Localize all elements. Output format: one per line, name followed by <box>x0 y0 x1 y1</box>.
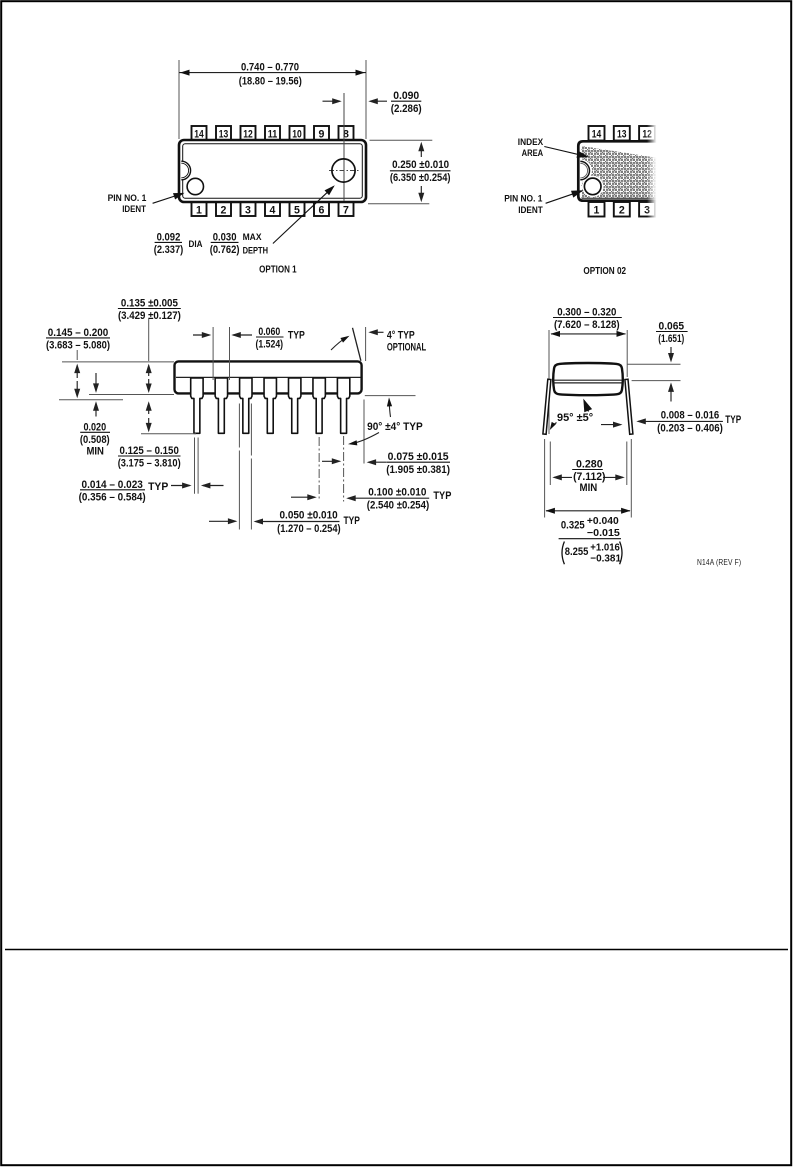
fig4 dim 0.065 upper line <box>627 363 681 365</box>
svg-text:2: 2 <box>221 204 227 216</box>
svg-text:12: 12 <box>243 128 253 140</box>
svg-text:3: 3 <box>644 204 650 216</box>
fig4 dim 0.280 arrows <box>554 476 572 478</box>
footer horizontal rule <box>5 949 788 951</box>
svg-text:4: 4 <box>270 204 276 216</box>
fig1 width dim extension lines <box>178 60 180 139</box>
svg-text:8.255: 8.255 <box>565 546 589 558</box>
svg-text:(1.270 – 0.254): (1.270 – 0.254) <box>277 523 341 535</box>
svg-text:0.050 ±0.010: 0.050 ±0.010 <box>280 509 338 521</box>
svg-text:TYP: TYP <box>148 481 168 493</box>
fig3 seating plane line right <box>365 395 416 397</box>
svg-text:0.020: 0.020 <box>83 421 106 433</box>
svg-text:(7.620 – 8.128): (7.620 – 8.128) <box>554 319 620 331</box>
fig2 pin1 ident circle <box>584 178 601 195</box>
svg-text:95° ±5°: 95° ±5° <box>557 412 593 424</box>
fig3 lead3 width extension lines <box>238 404 240 530</box>
svg-text:(3.429 ±0.127): (3.429 ±0.127) <box>118 310 181 322</box>
fig4 dim 0.008-0.016 arrows <box>601 424 621 426</box>
svg-text:(1.651): (1.651) <box>658 333 684 345</box>
fig3 lead6 center line extension <box>318 437 320 501</box>
fig4 dim 0.065 arrows <box>670 347 672 361</box>
fig4 95deg arrow to body <box>584 400 588 411</box>
svg-text:OPTION 02: OPTION 02 <box>583 266 626 277</box>
svg-text:14: 14 <box>194 128 204 140</box>
fig4 dim 0.300-0.320 line <box>551 333 626 335</box>
fig1 left-edge index notch <box>181 161 190 180</box>
fig1 depth hole circle <box>332 159 355 182</box>
fig1 vertical centerline through hole <box>343 93 345 201</box>
svg-text:6: 6 <box>319 204 325 216</box>
fig3 package body outline <box>175 361 362 393</box>
svg-text:0.008 – 0.016: 0.008 – 0.016 <box>661 409 720 421</box>
svg-text:(2.540 ±0.254): (2.540 ±0.254) <box>367 500 430 512</box>
fig4 dim 0.325 line <box>546 510 630 512</box>
fig4 dim 0.065 lower line <box>632 380 681 382</box>
fig2 pin boxes bottom (1,2,3) <box>589 202 605 217</box>
svg-text:TYP: TYP <box>433 490 451 502</box>
svg-text:0.014 – 0.023: 0.014 – 0.023 <box>82 479 143 491</box>
fig3 seating plane line left <box>59 399 123 401</box>
fig2 package body outline <box>578 141 658 200</box>
fig3 dim 0.125-0.150 arrows (standoff) <box>148 403 150 414</box>
svg-text:0.030: 0.030 <box>213 231 237 243</box>
fig4 right lead <box>625 379 633 434</box>
fig3 lead7 center line extension <box>343 436 345 502</box>
svg-text:0.280: 0.280 <box>576 459 603 471</box>
fig1 package body outline <box>179 140 366 202</box>
fig1 dim 0.250 extension lines <box>370 139 433 141</box>
fig2 body inner bottom line <box>582 197 659 199</box>
fig3 body parting line <box>176 376 361 378</box>
svg-text:5: 5 <box>294 204 300 216</box>
fig3 90deg up arrow <box>389 400 391 418</box>
svg-text:(2.337): (2.337) <box>154 244 184 256</box>
svg-text:TYP: TYP <box>725 414 741 426</box>
svg-text:0.135 ±0.005: 0.135 ±0.005 <box>121 298 178 310</box>
svg-text:1: 1 <box>594 204 600 216</box>
fig3 dim 0.060 extension lines <box>212 327 214 380</box>
fig3 label 4deg TYP OPTIONAL <box>370 331 383 333</box>
fig1 depth hole leader arrow <box>273 187 333 244</box>
svg-text:11: 11 <box>268 128 278 140</box>
svg-text:9: 9 <box>319 128 325 140</box>
svg-text:13: 13 <box>617 128 627 140</box>
svg-text:0.065: 0.065 <box>659 321 685 333</box>
svg-text:PIN NO. 1: PIN NO. 1 <box>108 192 147 203</box>
fig3 4deg tilt line <box>353 328 361 361</box>
fig4 dim 0.325 extension lines <box>544 439 546 518</box>
svg-text:0.060: 0.060 <box>258 326 280 338</box>
fig1 dim 0.090 arrows <box>323 100 340 102</box>
fig1 pin boxes top (14..8) <box>192 126 207 141</box>
fig4 left lead <box>543 379 551 434</box>
fig3 4deg vertical reference line <box>365 327 367 361</box>
svg-text:(3.683 – 5.080): (3.683 – 5.080) <box>46 340 110 352</box>
svg-text:(18.80 – 19.56): (18.80 – 19.56) <box>239 75 302 87</box>
fig1 dim 0.740-0.770 line with arrowheads <box>179 72 366 74</box>
fig3 dim 0.020 arrows <box>95 373 97 391</box>
svg-text:TYP: TYP <box>288 329 305 341</box>
svg-text:OPTION 1: OPTION 1 <box>259 265 297 276</box>
svg-text:13: 13 <box>219 128 229 140</box>
fig4 dim 0.280 extension lines <box>549 442 551 486</box>
svg-text:90° ±4° TYP: 90° ±4° TYP <box>367 421 423 433</box>
fig3 90deg arc arrow to lead <box>352 433 380 444</box>
fig4 body parting lines <box>554 379 623 381</box>
fig3 body bottom extension line left <box>89 394 174 396</box>
svg-text:1: 1 <box>196 204 202 216</box>
svg-text:+0.040: +0.040 <box>587 516 619 527</box>
svg-text:OPTIONAL: OPTIONAL <box>387 342 426 354</box>
fig4 package body outline <box>553 363 623 395</box>
svg-text:14: 14 <box>592 128 602 140</box>
svg-text:+1.016: +1.016 <box>590 542 620 553</box>
svg-text:0.300 – 0.320: 0.300 – 0.320 <box>557 307 616 319</box>
svg-text:IDENT: IDENT <box>518 204 543 215</box>
fig2 pin boxes top (14,13,12) <box>589 126 605 141</box>
fig3 body top extension line left <box>62 361 174 363</box>
svg-text:12: 12 <box>642 128 652 140</box>
svg-text:(6.350 ±0.254): (6.350 ±0.254) <box>390 172 451 184</box>
svg-text:0.145 – 0.200: 0.145 – 0.200 <box>48 327 109 339</box>
fig1 pin1 leader arrow <box>153 194 183 204</box>
fig1 pin1 ident circle <box>187 178 203 194</box>
fig1 pin boxes bottom (1..7) <box>192 202 207 217</box>
svg-text:0.250 ±0.010: 0.250 ±0.010 <box>392 159 449 171</box>
fig3 leads <box>191 378 203 433</box>
svg-text:(1.905 ±0.381): (1.905 ±0.381) <box>386 464 450 476</box>
fig3 body edge extension line right <box>363 400 365 464</box>
fig1 package body inner line <box>183 144 363 199</box>
svg-text:−0.381: −0.381 <box>590 554 621 565</box>
svg-text:10: 10 <box>292 128 302 140</box>
fig1 hole horizontal centerline <box>329 170 359 172</box>
svg-text:−0.015: −0.015 <box>587 528 620 539</box>
fig2 stipple index area texture <box>582 146 659 198</box>
svg-text:0.092: 0.092 <box>157 231 181 243</box>
fig3 dim 0.075 arrows <box>322 460 339 462</box>
fig3 dim 0.145-0.200 arrows <box>76 366 78 378</box>
svg-text:(2.286): (2.286) <box>391 103 422 115</box>
svg-text:0.075 ±0.015: 0.075 ±0.015 <box>388 451 449 463</box>
svg-text:TYP: TYP <box>344 515 360 527</box>
fig2 index leader arrow <box>544 147 587 157</box>
svg-text:0.325: 0.325 <box>561 520 585 532</box>
svg-text:0.090: 0.090 <box>393 90 419 102</box>
svg-text:DIA: DIA <box>189 239 203 250</box>
fig3 4deg curved arrow <box>331 337 347 350</box>
fig4 95deg arrow to lead <box>551 423 557 429</box>
fig3 dim 0.135 arrows (body thickness) <box>148 366 150 376</box>
svg-text:(0.356 – 0.584): (0.356 – 0.584) <box>79 491 146 503</box>
fig3 dim 0.100 arrows <box>291 496 315 498</box>
svg-text:MAX: MAX <box>243 232 262 243</box>
svg-text:N14A (REV F): N14A (REV F) <box>697 557 741 567</box>
svg-text:3: 3 <box>245 204 251 216</box>
fig3 dim 0.050 arrows <box>209 520 235 522</box>
svg-text:DEPTH: DEPTH <box>243 246 268 257</box>
svg-text:IDENT: IDENT <box>122 203 146 214</box>
svg-text:0.100 ±0.010: 0.100 ±0.010 <box>368 486 426 498</box>
fig3 lead tip level line left <box>141 433 196 435</box>
fig3 dim 0.014-0.023 arrows <box>171 485 190 487</box>
svg-text:MIN: MIN <box>86 446 104 458</box>
svg-text:2: 2 <box>619 204 625 216</box>
svg-text:(0.508): (0.508) <box>80 434 110 446</box>
svg-text:7: 7 <box>343 204 349 216</box>
fig2 pin1 ident circle halo <box>582 176 603 197</box>
fig3 dim 0.135 extension from text <box>148 319 150 361</box>
svg-text:(0.203 – 0.406): (0.203 – 0.406) <box>657 422 723 434</box>
svg-text:PIN NO. 1: PIN NO. 1 <box>504 192 542 203</box>
fig4 width dim extension lines <box>548 330 550 434</box>
fig2 index notch semicircle <box>581 159 592 182</box>
svg-text:(0.762): (0.762) <box>210 244 240 256</box>
svg-text:AREA: AREA <box>522 147 544 158</box>
svg-text:MIN: MIN <box>580 482 598 494</box>
svg-text:0.740 – 0.770: 0.740 – 0.770 <box>241 62 299 74</box>
svg-text:4° TYP: 4° TYP <box>387 329 415 341</box>
fig3 dim 0.060 arrows <box>193 334 209 336</box>
fig2 pin1 leader arrow <box>546 191 582 203</box>
fig1 dim 0.250 arrows <box>420 144 422 157</box>
svg-text:0.125 – 0.150: 0.125 – 0.150 <box>120 445 179 457</box>
svg-text:(3.175 – 3.810): (3.175 – 3.810) <box>118 458 181 470</box>
svg-text:INDEX: INDEX <box>518 136 544 147</box>
svg-text:(1.524): (1.524) <box>256 339 284 351</box>
fig3 lead1 edge extension lines <box>194 438 196 494</box>
